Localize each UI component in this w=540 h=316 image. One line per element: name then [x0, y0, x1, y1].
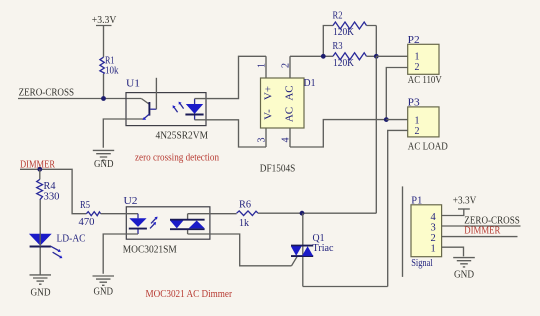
svg-text:GND: GND: [94, 286, 114, 297]
resistor R1: [100, 56, 119, 77]
svg-text:+3.3V: +3.3V: [453, 196, 477, 207]
ground (LD-AC): [30, 275, 52, 298]
svg-text:R4: R4: [44, 181, 56, 192]
svg-text:R6: R6: [239, 200, 251, 211]
svg-text:3: 3: [257, 138, 268, 143]
wire long vertical to R6/Q1 node: [375, 56, 377, 213]
wire DIMMER: [20, 169, 86, 213]
resistor R4: [37, 169, 60, 202]
svg-text:AC 110V: AC 110V: [408, 75, 442, 86]
triac Q1: [291, 233, 334, 266]
svg-text:DF1504S: DF1504S: [260, 163, 296, 174]
wire R1 to ZERO-CROSS node: [103, 74, 105, 99]
svg-text:R2: R2: [333, 10, 343, 21]
svg-text:4N25SR2VM: 4N25SR2VM: [156, 130, 209, 141]
svg-text:2: 2: [431, 233, 436, 244]
svg-text:1: 1: [431, 243, 436, 254]
resistor R2 with branch wires: [323, 10, 376, 56]
svg-text:GND: GND: [94, 159, 114, 170]
svg-text:V-: V-: [263, 109, 275, 120]
connector P1: [411, 194, 442, 268]
svg-text:330: 330: [44, 192, 60, 203]
svg-text:120K: 120K: [333, 27, 355, 38]
wire ZERO-CROSS: [18, 98, 141, 100]
wire U1 anode to D1 pin 1: [195, 56, 267, 98]
node DIMMER/R4: [37, 167, 42, 172]
svg-text:10k: 10k: [105, 66, 119, 77]
light arrows inside U2: [150, 217, 158, 229]
wire U2 pin to R6: [188, 213, 237, 215]
node R2/R3 right: [374, 54, 379, 59]
transistor inside U1: [141, 78, 156, 120]
svg-text:AC: AC: [284, 85, 296, 100]
wire node to P3 pin 1: [386, 119, 407, 121]
svg-text:4: 4: [431, 212, 437, 223]
svg-text:Signal: Signal: [411, 258, 433, 269]
svg-text:470: 470: [79, 217, 95, 228]
wire P3 pin 2 down to triac bottom: [388, 130, 408, 286]
LED inside U1: [185, 99, 203, 120]
wire P1 pin 4 to +3.3V: [442, 209, 464, 216]
wire U2 bottom pin to Q1 gate: [188, 234, 292, 266]
wire P2 pin 2 down to P3 pin 1: [386, 68, 407, 120]
svg-text:1k: 1k: [239, 218, 249, 229]
wire D1 pin 4 jog to P3 pin 1 node: [290, 120, 386, 147]
resistor R5: [79, 200, 101, 228]
connector P2: [408, 34, 442, 86]
svg-text:120K: 120K: [333, 58, 355, 69]
wire node to P2 pin 1: [376, 55, 407, 57]
wire U1 emitter to ground: [103, 119, 143, 148]
vertical line left of P1: [402, 186, 404, 277]
power +3.3V right: [453, 196, 477, 209]
svg-text:2: 2: [415, 62, 420, 73]
ground (U1 emitter): [93, 150, 114, 170]
svg-text:+3.3V: +3.3V: [92, 15, 117, 26]
bridge rectifier D1: [260, 77, 316, 174]
svg-text:2: 2: [415, 126, 420, 137]
svg-text:zero crossing detection: zero crossing detection: [135, 153, 220, 164]
svg-text:AC LOAD: AC LOAD: [408, 141, 448, 152]
svg-text:1: 1: [415, 115, 420, 126]
svg-text:MOC3021SM: MOC3021SM: [123, 245, 178, 256]
wire R6 to node and node to vertical: [258, 212, 376, 214]
optocoupler U2 box: [123, 195, 210, 256]
svg-text:MOC3021 AC Dimmer: MOC3021 AC Dimmer: [146, 289, 233, 300]
svg-text:ZERO-CROSS: ZERO-CROSS: [19, 87, 75, 98]
svg-text:P2: P2: [408, 34, 420, 46]
svg-text:1: 1: [257, 63, 268, 68]
LED LD-AC: [29, 233, 86, 259]
node P3 pin 1: [384, 117, 389, 122]
svg-text:P1: P1: [411, 194, 422, 206]
wire node down to Q1: [302, 213, 304, 286]
wire U1 cathode to D1 pin 3: [195, 120, 267, 147]
svg-text:R5: R5: [80, 200, 90, 211]
svg-text:3: 3: [431, 222, 436, 233]
LED inside U2: [101, 214, 147, 274]
wire P1 pin 2 (DIMMER): [442, 236, 518, 238]
svg-text:D1: D1: [304, 77, 316, 89]
node R6/Q1: [300, 211, 305, 216]
svg-text:Triac: Triac: [313, 243, 335, 254]
svg-text:LD-AC: LD-AC: [57, 233, 86, 245]
ground (U2): [93, 276, 115, 297]
light arrows inside U1: [173, 102, 184, 113]
svg-text:U1: U1: [126, 78, 140, 90]
svg-text:R3: R3: [333, 41, 343, 52]
wire P1 pin 3 (ZERO-CROSS): [442, 225, 521, 227]
wire D1 pin 2 to R2/R3: [290, 56, 323, 78]
wire P1 pin 1 to ground: [442, 247, 464, 256]
svg-text:V+: V+: [263, 86, 275, 100]
svg-text:P3: P3: [408, 96, 421, 108]
optocoupler U1 box: [126, 78, 209, 142]
connector P3: [408, 96, 448, 152]
svg-text:DIMMER: DIMMER: [464, 226, 500, 237]
resistor R6: [237, 200, 258, 230]
resistor R3: [323, 41, 376, 69]
node R2/R3 left: [321, 54, 326, 59]
node ZERO-CROSS/R1 junction: [101, 96, 106, 101]
power +3.3V top-left: [92, 15, 117, 57]
ground (P1): [453, 258, 475, 281]
wire Q1 bottom to P3 pin 2 vertical: [303, 286, 388, 288]
wire R4 to LED and ground: [39, 200, 41, 275]
svg-text:U2: U2: [124, 195, 138, 207]
svg-text:GND: GND: [31, 287, 51, 298]
svg-text:GND: GND: [454, 270, 474, 281]
triac inside U2: [170, 214, 205, 234]
svg-text:AC: AC: [284, 107, 296, 122]
